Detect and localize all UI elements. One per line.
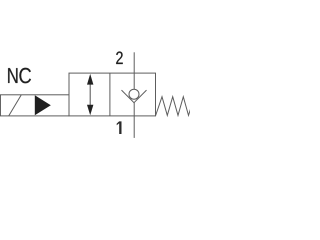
return spring bbox=[156, 97, 192, 116]
port 2 label bbox=[116, 52, 123, 65]
check valve ball bbox=[129, 89, 139, 99]
coil diagonal stroke bbox=[9, 95, 21, 116]
port 1 line bbox=[133, 103, 135, 138]
label NC bbox=[8, 68, 17, 83]
double arrow upper head bbox=[87, 74, 93, 85]
double arrow lower head bbox=[87, 105, 93, 116]
position divider line bbox=[109, 73, 111, 116]
check valve seat (V) bbox=[122, 90, 147, 103]
solenoid arrow (filled triangle) bbox=[35, 95, 51, 115]
valve body outline (two-position envelope) bbox=[69, 73, 156, 116]
port 2 line bbox=[133, 52, 135, 89]
closed-position double arrow shaft bbox=[89, 84, 91, 106]
port 1 label bbox=[117, 121, 122, 134]
solenoid coil box bbox=[0, 95, 69, 116]
